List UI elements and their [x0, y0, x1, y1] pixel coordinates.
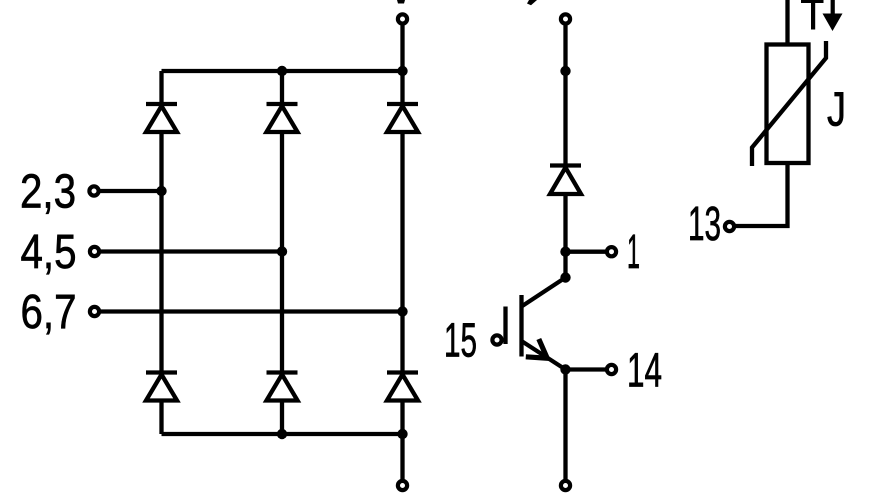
- node AC 4,5: [277, 246, 287, 256]
- wire to terminal 14: [566, 367, 606, 371]
- wire to terminal 1: [566, 250, 606, 254]
- wire column 3: [400, 26, 404, 481]
- terminal DC- bottom of bridge: [398, 481, 407, 490]
- gate terminal circle 15: [492, 335, 501, 344]
- node bottom rail / col3: [397, 429, 407, 439]
- thermistor R1: [736, 0, 827, 226]
- wire emitter down: [563, 370, 567, 481]
- svg-text:6,7: 6,7: [21, 286, 77, 339]
- diode D4 bottom of phase 2,3: [146, 373, 177, 401]
- svg-text:J: J: [827, 84, 846, 137]
- svg-text:15: 15: [444, 315, 477, 368]
- terminal AC 4,5: [90, 247, 99, 256]
- svg-text:4,5: 4,5: [21, 226, 77, 279]
- terminal AC 2,3: [89, 186, 98, 195]
- wire AC input 4,5: [101, 249, 283, 253]
- wire thermistor bottom to 13: [736, 163, 788, 226]
- diode D6 bottom of phase 6,7: [387, 373, 418, 401]
- wire AC input 2,3: [100, 189, 162, 193]
- terminal AC 6,7: [90, 307, 99, 316]
- wire chopper branch upper: [563, 26, 567, 278]
- emitter arrowhead: [526, 339, 547, 358]
- svg-text:14: 14: [627, 345, 662, 398]
- node top rail / col3: [397, 66, 407, 76]
- node top rail / col2: [277, 66, 287, 76]
- terminal 13: [725, 222, 734, 231]
- wire column 1: [159, 71, 163, 434]
- body bar: [519, 295, 523, 357]
- emitter lead: [522, 341, 566, 370]
- node AC 6,7: [397, 306, 407, 316]
- wire thermistor top: [785, 0, 789, 45]
- terminal 1: [607, 247, 616, 256]
- node collector junction: [560, 272, 570, 282]
- diode D3 top of phase 6,7: [387, 104, 418, 132]
- gate bar: [503, 307, 507, 345]
- wire bottom rail DC-: [162, 432, 403, 436]
- diode D7 freewheel: [550, 166, 581, 195]
- temperature arrow: [823, 0, 843, 31]
- wire column 2: [280, 71, 284, 434]
- wire top rail DC+: [162, 69, 403, 73]
- cut-off label remnant above DC+ terminal: [397, 0, 405, 4]
- transistor Q1 IGBT: [506, 278, 566, 370]
- diode D1 top of phase 2,3: [146, 104, 177, 132]
- terminal chopper top: [561, 14, 570, 23]
- terminal chopper bottom: [561, 481, 570, 490]
- svg-text:2,3: 2,3: [20, 166, 76, 219]
- node AC 2,3: [156, 186, 166, 196]
- node chopper DC+: [560, 66, 570, 76]
- terminal 14: [607, 365, 616, 374]
- diode D5 bottom of phase 4,5: [267, 373, 298, 401]
- node emitter junction: [560, 364, 570, 374]
- node terminal 1 junction: [560, 247, 570, 257]
- wire AC input 6,7: [101, 309, 403, 313]
- diode D2 top of phase 4,5: [267, 104, 298, 132]
- svg-text:1: 1: [627, 226, 640, 279]
- terminal DC+ top of bridge: [398, 14, 407, 23]
- svg-text:13: 13: [688, 198, 721, 251]
- label T (cut): [801, 0, 824, 30]
- collector lead: [522, 278, 566, 307]
- cut-off comma remnant above chopper terminal: [527, 0, 537, 5]
- node bottom rail / col2: [277, 429, 287, 439]
